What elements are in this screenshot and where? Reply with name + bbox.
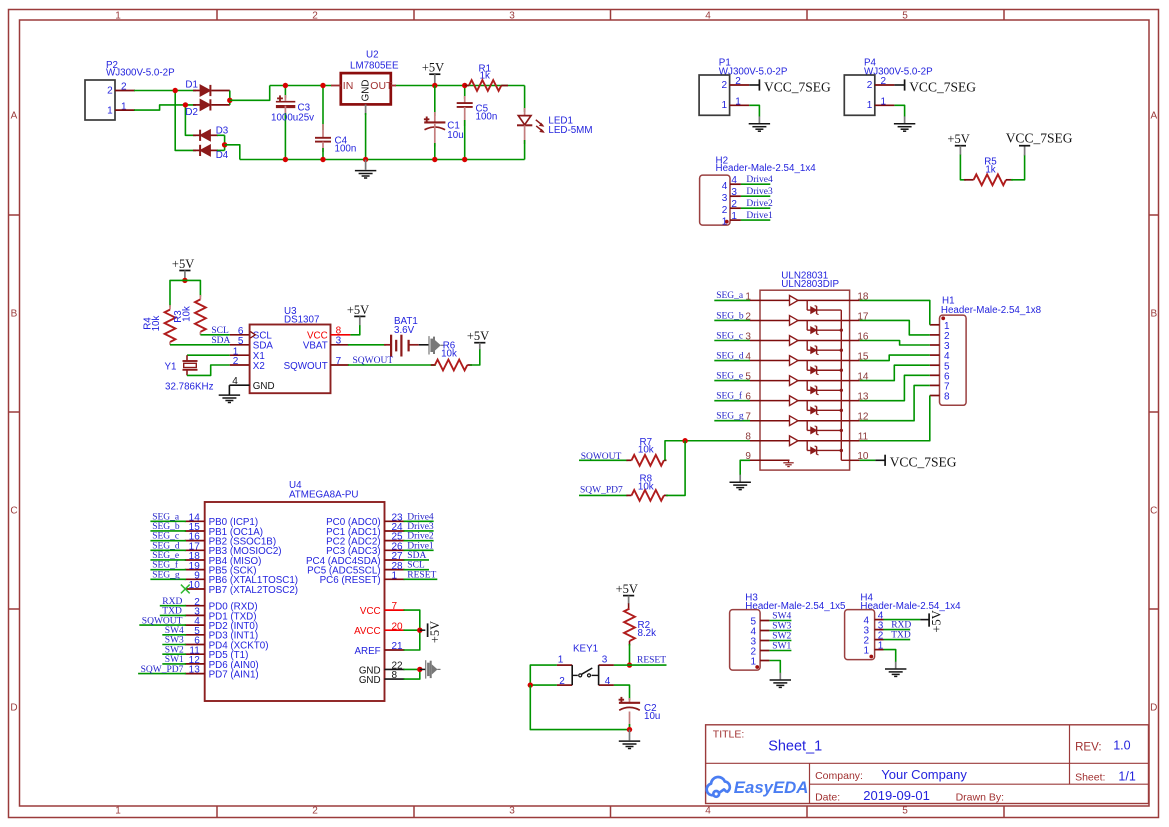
svg-text:GND: GND — [361, 80, 372, 102]
svg-text:1: 1 — [722, 100, 728, 111]
svg-text:4: 4 — [605, 676, 611, 687]
svg-text:4: 4 — [722, 181, 728, 192]
svg-text:1: 1 — [392, 570, 398, 581]
svg-text:1k: 1k — [985, 164, 995, 175]
svg-text:Drawn By:: Drawn By: — [956, 791, 1004, 803]
svg-text:100n: 100n — [335, 144, 357, 155]
svg-text:1: 1 — [558, 654, 564, 665]
svg-text:+5V: +5V — [929, 610, 943, 632]
svg-text:+5V: +5V — [467, 329, 489, 343]
svg-text:SDA: SDA — [253, 341, 274, 352]
svg-text:2: 2 — [867, 80, 873, 91]
svg-text:2: 2 — [312, 806, 318, 817]
svg-text:+5V: +5V — [616, 582, 638, 596]
svg-text:Header-Male-2.54_1x8: Header-Male-2.54_1x8 — [941, 305, 1042, 316]
svg-text:X2: X2 — [253, 361, 265, 372]
svg-text:+5V: +5V — [422, 61, 444, 75]
svg-text:AVCC: AVCC — [354, 626, 381, 637]
svg-text:PD7 (AIN1): PD7 (AIN1) — [209, 670, 259, 681]
svg-text:1000u25v: 1000u25v — [271, 112, 314, 123]
svg-text:D2: D2 — [185, 107, 198, 118]
svg-text:Sheet:: Sheet: — [1075, 772, 1105, 784]
svg-text:SW1: SW1 — [165, 655, 184, 665]
svg-text:EasyEDA: EasyEDA — [734, 778, 809, 797]
svg-text:SW2: SW2 — [165, 645, 184, 655]
svg-text:RXD: RXD — [891, 621, 911, 631]
svg-text:SEG_g: SEG_g — [152, 570, 180, 580]
svg-text:5: 5 — [902, 806, 908, 817]
svg-text:5: 5 — [238, 336, 244, 347]
svg-text:1: 1 — [750, 656, 756, 667]
svg-text:KEY1: KEY1 — [573, 644, 598, 655]
svg-text:ATMEGA8A-PU: ATMEGA8A-PU — [289, 489, 359, 500]
svg-text:Header-Male-2.54_1x5: Header-Male-2.54_1x5 — [745, 601, 846, 612]
svg-text:B: B — [1150, 309, 1157, 320]
svg-text:D: D — [10, 703, 17, 714]
svg-text:Company:: Company: — [815, 770, 863, 782]
svg-text:10: 10 — [189, 580, 201, 591]
svg-text:32.786KHz: 32.786KHz — [165, 381, 214, 392]
svg-text:Header-Male-2.54_1x4: Header-Male-2.54_1x4 — [860, 601, 961, 612]
svg-text:+5V: +5V — [172, 257, 194, 271]
svg-text:VCC_7SEG: VCC_7SEG — [764, 79, 831, 94]
svg-text:Your Company: Your Company — [881, 767, 967, 782]
svg-text:C: C — [10, 506, 17, 517]
svg-text:10u: 10u — [644, 711, 660, 722]
svg-text:4: 4 — [705, 10, 711, 21]
svg-text:SQW_PD7: SQW_PD7 — [580, 486, 623, 496]
svg-text:10u: 10u — [447, 130, 463, 141]
svg-text:13: 13 — [189, 665, 201, 676]
svg-text:10k: 10k — [151, 316, 162, 332]
svg-text:SW3: SW3 — [165, 636, 184, 646]
svg-text:+5V: +5V — [428, 621, 442, 643]
svg-text:1.0: 1.0 — [1113, 739, 1130, 753]
svg-text:TITLE:: TITLE: — [713, 729, 745, 741]
svg-text:B: B — [11, 309, 18, 320]
svg-text:2: 2 — [233, 356, 239, 367]
svg-text:SEG_b: SEG_b — [152, 522, 180, 532]
svg-text:IN: IN — [343, 80, 354, 92]
svg-text:SEG_f: SEG_f — [152, 560, 179, 571]
svg-text:SEG_d: SEG_d — [152, 541, 180, 551]
svg-text:PC6 (RESET): PC6 (RESET) — [320, 575, 381, 586]
svg-text:A: A — [11, 111, 18, 122]
svg-text:10k: 10k — [441, 348, 457, 359]
svg-text:2: 2 — [722, 80, 728, 91]
svg-text:1: 1 — [722, 217, 728, 228]
svg-text:TXD: TXD — [162, 607, 182, 617]
svg-text:+5V: +5V — [347, 303, 369, 317]
svg-text:3: 3 — [509, 806, 515, 817]
svg-text:SEG_e: SEG_e — [152, 551, 179, 561]
svg-text:1k: 1k — [480, 70, 490, 81]
svg-text:Drive2: Drive2 — [746, 199, 773, 209]
svg-text:SW1: SW1 — [772, 642, 791, 652]
svg-text:10k: 10k — [638, 482, 654, 493]
svg-text:1: 1 — [863, 646, 869, 657]
svg-text:Drive1: Drive1 — [746, 211, 773, 221]
svg-text:5: 5 — [902, 10, 908, 21]
svg-text:SQW_PD7: SQW_PD7 — [141, 665, 184, 675]
svg-text:Drive2: Drive2 — [407, 532, 434, 542]
svg-text:VCC_7SEG: VCC_7SEG — [890, 455, 957, 470]
svg-text:SEG_b: SEG_b — [716, 311, 744, 321]
svg-text:D1: D1 — [185, 80, 198, 91]
svg-text:2: 2 — [107, 85, 113, 96]
svg-text:SCL: SCL — [407, 561, 425, 571]
svg-text:SEG_g: SEG_g — [716, 412, 744, 422]
svg-text:SQWOUT: SQWOUT — [353, 356, 394, 366]
svg-text:SDA: SDA — [211, 336, 230, 346]
svg-text:SEG_e: SEG_e — [716, 371, 743, 381]
svg-text:1: 1 — [115, 806, 121, 817]
svg-text:RESET: RESET — [637, 656, 666, 666]
svg-text:3: 3 — [509, 10, 515, 21]
svg-text:D4: D4 — [216, 150, 229, 161]
svg-text:8: 8 — [944, 392, 950, 403]
svg-text:3: 3 — [602, 654, 608, 665]
svg-text:Drive3: Drive3 — [407, 522, 434, 532]
svg-text:VCC_7SEG: VCC_7SEG — [909, 79, 976, 94]
svg-text:TXD: TXD — [891, 631, 911, 641]
svg-text:PB7 (XTAL2TOSC2): PB7 (XTAL2TOSC2) — [209, 585, 298, 596]
svg-text:SEG_c: SEG_c — [716, 331, 743, 341]
svg-text:SW4: SW4 — [772, 612, 791, 622]
svg-text:2: 2 — [722, 205, 728, 216]
svg-text:GND: GND — [359, 675, 381, 686]
svg-text:SW2: SW2 — [772, 632, 791, 642]
svg-text:D: D — [1150, 703, 1157, 714]
svg-text:Drive4: Drive4 — [407, 512, 434, 522]
svg-text:2: 2 — [312, 10, 318, 21]
svg-text:LM7805EE: LM7805EE — [350, 61, 399, 72]
svg-text:GND: GND — [253, 381, 275, 392]
svg-text:SDA: SDA — [407, 551, 426, 561]
svg-text:Date:: Date: — [815, 791, 840, 803]
svg-text:SEG_c: SEG_c — [152, 532, 179, 542]
svg-text:SQWOUT: SQWOUT — [142, 616, 183, 626]
svg-text:4: 4 — [705, 806, 711, 817]
svg-text:AREF: AREF — [354, 646, 380, 657]
svg-text:U2: U2 — [366, 50, 379, 61]
svg-text:OUT: OUT — [370, 80, 393, 92]
svg-text:LED-5MM: LED-5MM — [548, 125, 592, 136]
svg-text:SEG_d: SEG_d — [716, 351, 744, 361]
svg-text:SEG_f: SEG_f — [716, 390, 743, 401]
svg-text:SW3: SW3 — [772, 622, 791, 632]
svg-text:Header-Male-2.54_1x4: Header-Male-2.54_1x4 — [716, 163, 817, 174]
svg-text:SEG_a: SEG_a — [152, 512, 180, 522]
svg-text:10k: 10k — [181, 306, 192, 322]
svg-text:C: C — [1150, 506, 1157, 517]
svg-text:1: 1 — [115, 10, 121, 21]
svg-text:A: A — [1150, 111, 1157, 122]
svg-text:RXD: RXD — [162, 597, 182, 607]
svg-text:2: 2 — [559, 676, 565, 687]
svg-text:10k: 10k — [638, 445, 654, 456]
svg-text:3.6V: 3.6V — [394, 325, 415, 336]
svg-text:2019-09-01: 2019-09-01 — [863, 788, 930, 803]
svg-text:3: 3 — [722, 193, 728, 204]
svg-text:Y1: Y1 — [165, 362, 177, 373]
svg-text:Drive3: Drive3 — [746, 187, 773, 197]
svg-text:VCC: VCC — [360, 606, 381, 617]
svg-text:SQWOUT: SQWOUT — [284, 361, 328, 372]
svg-text:SW4: SW4 — [165, 626, 184, 636]
svg-text:SCL: SCL — [211, 326, 229, 336]
svg-text:8.2k: 8.2k — [638, 628, 657, 639]
svg-text:+5V: +5V — [947, 132, 969, 146]
svg-text:RESET: RESET — [407, 570, 436, 580]
svg-text:Drive4: Drive4 — [746, 175, 773, 185]
svg-text:Sheet_1: Sheet_1 — [768, 738, 822, 754]
svg-text:REV:: REV: — [1075, 741, 1101, 753]
svg-text:100n: 100n — [476, 111, 498, 122]
svg-text:WJ300V-5.0-2P: WJ300V-5.0-2P — [106, 67, 175, 78]
svg-text:VCC_7SEG: VCC_7SEG — [1006, 130, 1073, 145]
svg-text:SEG_a: SEG_a — [716, 291, 744, 301]
svg-text:1: 1 — [867, 100, 873, 111]
svg-text:VBAT: VBAT — [303, 341, 328, 352]
svg-text:1: 1 — [107, 105, 113, 116]
svg-text:ULN2803DIP: ULN2803DIP — [781, 279, 839, 290]
svg-text:1/1: 1/1 — [1118, 769, 1135, 783]
svg-text:Drive1: Drive1 — [407, 541, 434, 551]
